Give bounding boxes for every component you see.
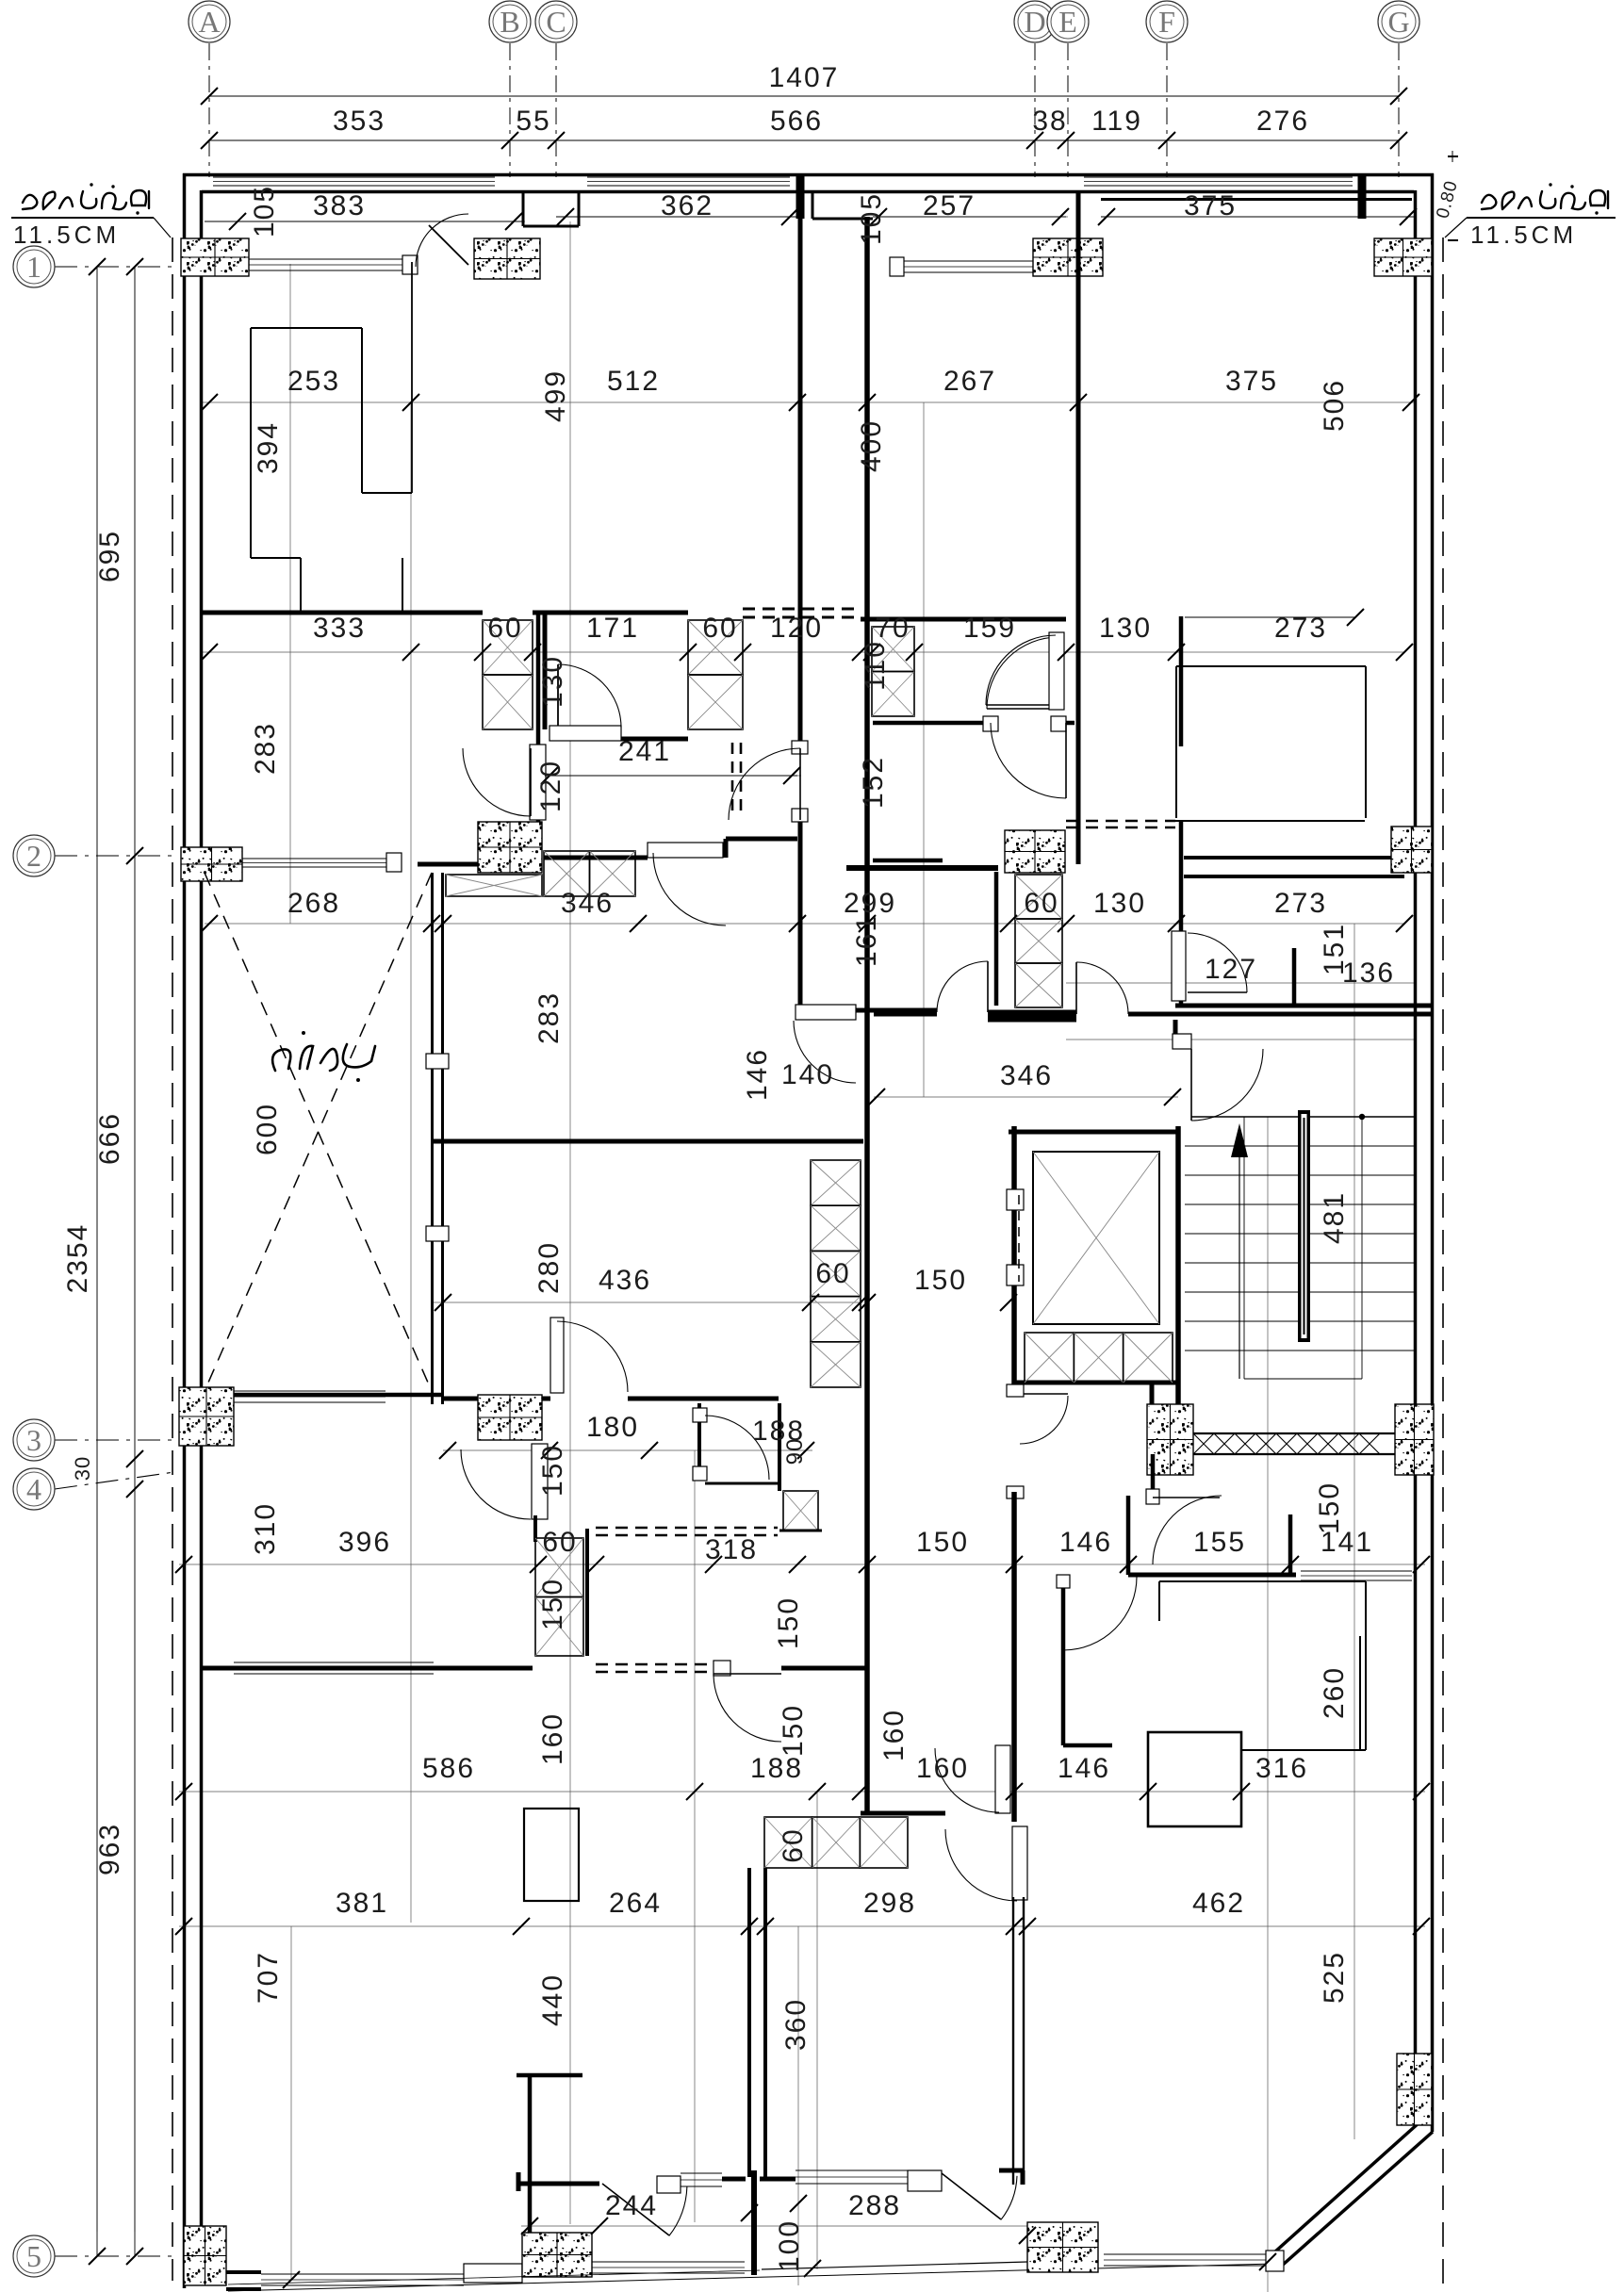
boxes under elevator (1025, 1333, 1074, 1383)
handrail (1298, 1110, 1310, 1342)
door 146 (1012, 1826, 1027, 1900)
outer wall top (183, 173, 1434, 177)
dim row y1539 (439, 1442, 456, 1459)
svg-text:600: 600 (252, 1103, 283, 1155)
dim row y2362 (521, 2218, 538, 2235)
door hall (729, 748, 800, 820)
extension lines (97, 217, 1425, 2292)
svg-text:F: F (1158, 5, 1175, 39)
wall 229 right/bottom (873, 859, 943, 863)
svg-text:362: 362 (661, 190, 714, 221)
persian label top-right (1482, 190, 1608, 209)
svg-text:512: 512 (607, 366, 660, 397)
dim row y427 (201, 394, 218, 411)
svg-text:525: 525 (1319, 1951, 1350, 2004)
doors on corridor (937, 961, 988, 1012)
svg-text:1: 1 (26, 250, 41, 284)
wall y1072 (874, 1012, 937, 1017)
svg-text:150: 150 (537, 1578, 568, 1630)
svg-text:375: 375 (1184, 190, 1237, 221)
bottom-left corner (184, 2226, 226, 2285)
svg-text:333: 333 (313, 613, 366, 644)
svg-text:383: 383 (313, 190, 366, 221)
door 288 (942, 2173, 1001, 2219)
stair door (1173, 1020, 1178, 1046)
row2 right (1005, 830, 1065, 873)
door 155 (1146, 1489, 1159, 1504)
walls x795 x812 (747, 1868, 751, 2177)
svg-text:310: 310 (250, 1502, 281, 1555)
svg-text:276: 276 (1256, 106, 1309, 137)
lobby door (1020, 1393, 1068, 1395)
svg-text:60: 60 (1024, 888, 1058, 919)
svg-text:60: 60 (542, 1527, 577, 1558)
svg-text:963: 963 (94, 1823, 125, 1875)
wall 229 top + door (873, 721, 987, 726)
dim row y1382 (435, 1294, 451, 1311)
svg-text:440: 440 (537, 1973, 568, 2026)
svg-text:90: 90 (782, 1438, 808, 1465)
svg-text:506: 506 (1319, 379, 1350, 432)
dim row y692 (201, 644, 218, 661)
wall y1211 (432, 1139, 863, 1144)
svg-text:120: 120 (535, 760, 566, 812)
door 130 cell (550, 726, 621, 741)
svg-text:180: 180 (586, 1412, 639, 1443)
svg-text:B: B (500, 5, 519, 39)
svg-text:110: 110 (860, 640, 891, 691)
door below column (532, 1444, 548, 1519)
svg-text:566: 566 (770, 106, 823, 137)
square 316 (1148, 1732, 1241, 1826)
svg-text:462: 462 (1192, 1888, 1245, 1919)
persian label top-left (23, 190, 149, 209)
svg-text:60: 60 (487, 613, 522, 644)
svg-text:70: 70 (875, 613, 910, 644)
svg-text:159: 159 (963, 613, 1016, 644)
svg-text:260: 260 (1319, 1666, 1350, 1719)
svg-text:695: 695 (94, 530, 125, 582)
svg-text:586: 586 (422, 1753, 475, 1784)
door 120 (463, 748, 531, 816)
outer wall right (1431, 173, 1435, 2132)
top wall step pieces (522, 190, 525, 226)
wall y1924 (861, 1811, 945, 1816)
svg-text:264: 264 (609, 1888, 662, 1919)
svg-text:150: 150 (914, 1265, 967, 1296)
svg-text:280: 280 (533, 1241, 565, 1294)
svg-text:146: 146 (1059, 1527, 1112, 1558)
svg-text:283: 283 (533, 991, 565, 1044)
svg-text:1407: 1407 (769, 62, 840, 93)
top dimension row 2 (209, 139, 1399, 141)
svg-text:273: 273 (1274, 888, 1327, 919)
svg-text:60: 60 (778, 1827, 809, 1862)
svg-text:499: 499 (540, 369, 571, 422)
svg-text:298: 298 (863, 1888, 916, 1919)
wall x1144 (1076, 190, 1081, 864)
svg-text:150: 150 (778, 1704, 809, 1757)
site boundary thin line (228, 2264, 1274, 2291)
svg-text:283: 283 (250, 722, 281, 775)
svg-text:346: 346 (561, 888, 614, 919)
top dimension row 1407 (209, 95, 1399, 97)
room 302 terrace rect (1175, 666, 1177, 818)
bottom right column + window (1027, 2222, 1098, 2272)
door 159 (1049, 632, 1064, 710)
svg-text:60: 60 (702, 613, 737, 644)
svg-text:11.5CM: 11.5CM (13, 221, 120, 249)
svg-text:160: 160 (916, 1753, 969, 1784)
wall y1770 (202, 1666, 533, 1671)
svg-text:38: 38 (1032, 106, 1067, 137)
svg-text:4: 4 (26, 1472, 41, 1506)
svg-text:150: 150 (916, 1527, 969, 1558)
up arrow (1239, 1155, 1240, 1379)
svg-text:318: 318 (705, 1534, 758, 1565)
svg-text:11.5CM: 11.5CM (1470, 221, 1577, 249)
svg-text:346: 346 (1000, 1060, 1053, 1091)
door 436 room (550, 1318, 564, 1393)
svg-text:707: 707 (253, 1951, 284, 2004)
stub 141 (1288, 1514, 1293, 1575)
svg-text:130: 130 (1093, 888, 1146, 919)
duct x565 (535, 1538, 583, 1597)
chamfer wall bottom-right (1282, 2132, 1433, 2266)
svg-text:150: 150 (537, 1444, 568, 1497)
svg-text:100: 100 (774, 2219, 805, 2272)
dim 346 corridor (868, 1089, 885, 1105)
door 244 (602, 2184, 669, 2235)
svg-text:253: 253 (287, 366, 340, 397)
svg-text:146: 146 (742, 1048, 773, 1101)
svg-text:244: 244 (605, 2190, 658, 2221)
grid3/4 columns left (179, 1387, 234, 1446)
svg-text:127: 127 (1205, 954, 1257, 985)
row bubbles 1-5 (55, 266, 174, 268)
lightwell dashed X (205, 873, 432, 1391)
svg-text:436: 436 (599, 1265, 651, 1296)
dim row y1660 (175, 1556, 192, 1573)
expansion joint dashed left (172, 237, 173, 2281)
rect window bay x565 (524, 1809, 579, 1901)
svg-text:381: 381 (336, 1888, 388, 1919)
wall y2202 (517, 2073, 582, 2078)
svg-text:152: 152 (858, 756, 889, 809)
svg-text:105: 105 (249, 185, 280, 237)
svg-text:257: 257 (923, 190, 976, 221)
wall x571 (536, 613, 541, 745)
svg-text:241: 241 (618, 736, 671, 767)
svg-text:105: 105 (856, 192, 887, 245)
row1 columns (181, 238, 249, 276)
svg-text:150: 150 (1314, 1482, 1345, 1534)
wall x1128 room 160 (1061, 1581, 1066, 1745)
dim row y980 (201, 915, 218, 932)
svg-text:55: 55 (516, 106, 550, 137)
crosshatch joint strip (1193, 1432, 1395, 1434)
noorgir persian (272, 1044, 375, 1071)
door 160 (995, 1745, 1010, 1813)
svg-text:5: 5 (26, 2239, 41, 2273)
svg-text:130: 130 (1099, 613, 1152, 644)
cross junction (760, 2177, 796, 2182)
svg-text:375: 375 (1225, 366, 1278, 397)
wall x849 lower (798, 864, 803, 1010)
svg-text:3: 3 (26, 1423, 41, 1457)
svg-text:119: 119 (1091, 106, 1142, 137)
duct shafts row y650 (483, 620, 533, 675)
svg-text:267: 267 (943, 366, 996, 397)
grid lines (208, 43, 210, 177)
svg-text:273: 273 (1274, 613, 1327, 644)
svg-text:146: 146 (1058, 1753, 1110, 1784)
svg-text:136: 136 (1342, 958, 1395, 989)
svg-text:C: C (546, 5, 566, 39)
svg-text:E: E (1058, 5, 1077, 39)
svg-text:481: 481 (1319, 1191, 1350, 1244)
wall y1671 (1128, 1573, 1296, 1578)
lightwell bottom (205, 1393, 443, 1398)
terrace 260 rect (1158, 1581, 1160, 1621)
svg-text:A: A (198, 5, 220, 39)
svg-text:666: 666 (94, 1112, 125, 1165)
svg-text:140: 140 (781, 1059, 834, 1090)
wall x1253 (1179, 616, 1184, 746)
svg-text:D: D (1024, 5, 1045, 39)
duct strip under row2 (446, 875, 542, 896)
boxes 60 row (764, 1817, 812, 1868)
top wall windows (213, 176, 495, 178)
cell 171 (543, 613, 548, 729)
duct strip vertical x860 (811, 1160, 861, 1205)
svg-text:160: 160 (537, 1712, 568, 1765)
row2 mid column (478, 822, 542, 873)
svg-text:400: 400 (856, 419, 887, 472)
door top-left (416, 214, 468, 267)
svg-text:150: 150 (773, 1596, 804, 1649)
closet walls (251, 327, 362, 329)
cell 150 door (697, 1403, 701, 1479)
door 127 (1172, 931, 1186, 1001)
dim texts row A (205, 221, 523, 222)
svg-text:30: 30 (71, 1456, 94, 1481)
svg-text:2354: 2354 (62, 1223, 93, 1294)
svg-text:268: 268 (287, 888, 340, 919)
wall above stairs (1175, 1004, 1432, 1008)
outer wall left (183, 173, 187, 2288)
wall row y650 (202, 611, 483, 615)
svg-text:288: 288 (848, 2190, 901, 2221)
elevator shaft walls (1009, 1130, 1178, 1135)
svg-text:120: 120 (770, 613, 823, 644)
svg-text:2: 2 (26, 839, 41, 873)
lightwell right wall (431, 873, 434, 1404)
dim 241 (545, 775, 797, 777)
wall y1484 (443, 1397, 550, 1401)
dim row y1901 (175, 1783, 192, 1800)
inner bottom wall (518, 2182, 599, 2186)
dim row y2044 (175, 1918, 192, 1935)
wall x849/846 (798, 190, 803, 745)
stub 151 (1292, 948, 1297, 1007)
svg-text:60: 60 (815, 1258, 850, 1289)
svg-text:130: 130 (537, 655, 568, 708)
svg-text:161: 161 (851, 914, 882, 967)
svg-text:394: 394 (253, 421, 284, 474)
wall x1076 lower (1011, 1492, 1017, 1822)
svg-text:G: G (1387, 5, 1409, 39)
svg-text:316: 316 (1255, 1753, 1308, 1784)
wall x920 (864, 217, 870, 1813)
row1 window left (242, 258, 402, 260)
svg-text:353: 353 (333, 106, 385, 137)
row2 wall left (181, 847, 242, 881)
expansion joint dashed right (1442, 237, 1444, 2292)
shaft x1077 (1015, 875, 1062, 919)
svg-text:360: 360 (780, 1998, 812, 2051)
dashed vert (731, 743, 734, 818)
corridor top wall + 140 door (856, 1008, 937, 1013)
elevator cab (1033, 1152, 1159, 1324)
row1 window right (903, 260, 1033, 262)
stairs (1191, 1116, 1414, 1118)
svg-text:171: 171 (586, 613, 639, 644)
svg-text:160: 160 (878, 1709, 910, 1761)
svg-text:396: 396 (338, 1527, 391, 1558)
wall x1223 (1151, 1454, 1156, 1496)
svg-text:155: 155 (1193, 1527, 1246, 1558)
